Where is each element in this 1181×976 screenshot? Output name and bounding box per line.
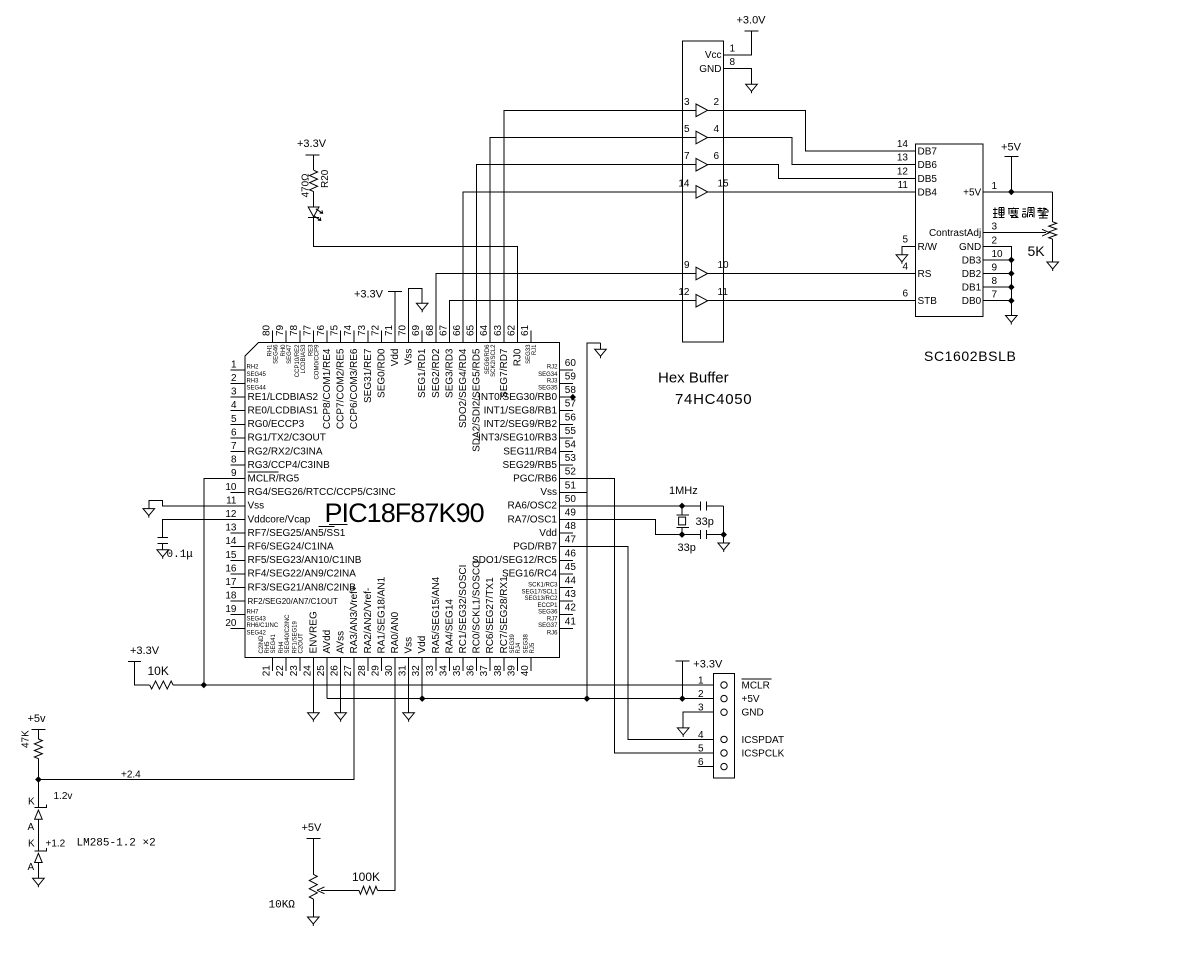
- U1 pin 72 SEG0/RD0: [370, 324, 387, 398]
- svg-text:10: 10: [225, 482, 237, 493]
- svg-text:RS: RS: [918, 269, 932, 280]
- wire U1 pin26 AVss to ground: [340, 671, 342, 713]
- svg-text:Vddcore/Vcap: Vddcore/Vcap: [248, 514, 311, 525]
- U2 Vcc pin 1: [705, 44, 736, 62]
- svg-text:10: 10: [992, 249, 1004, 260]
- svg-text:17: 17: [225, 577, 237, 588]
- U1 part name PIC18F87K90: [325, 498, 484, 528]
- wire U1 pin52 PGC to ICSPCLK: [573, 479, 713, 753]
- buffer U2 unit 1 (in 3 out 2): [682, 97, 723, 117]
- junction +2.4 node: [35, 776, 42, 783]
- svg-text:7: 7: [684, 151, 690, 162]
- svg-text:RA2/AN2/Vref-: RA2/AN2/Vref-: [363, 588, 374, 654]
- J1 pin1 line: [698, 684, 714, 686]
- crystal X1 1MHz: [669, 485, 698, 535]
- U1 pin 9 MCLR/RG5: [231, 468, 300, 484]
- svg-text:SDO1/SEG12/RC5: SDO1/SEG12/RC5: [472, 555, 557, 566]
- svg-text:INT0/SEG30/RB0: INT0/SEG30/RB0: [478, 392, 557, 403]
- U1 pin 38 RC7/SEG28/RX1: [493, 576, 510, 676]
- U1 pin 24 ENVREG: [302, 611, 319, 676]
- svg-text:+3.3V: +3.3V: [130, 645, 160, 657]
- svg-text:PIC18F87K90: PIC18F87K90: [325, 498, 484, 528]
- label LM285-1.2 ×2: [77, 838, 156, 850]
- J1 pin 6: [698, 757, 727, 770]
- svg-text:1: 1: [730, 44, 736, 55]
- svg-text:3: 3: [992, 222, 998, 233]
- svg-text:2: 2: [231, 373, 237, 384]
- junction DB2: [1008, 270, 1015, 277]
- capacitor C3 33p (bottom): [678, 530, 724, 554]
- label +2.4: [121, 770, 141, 781]
- svg-text:36: 36: [466, 665, 477, 677]
- svg-text:31: 31: [398, 665, 409, 677]
- capacitor C1 0.1μ: [158, 538, 194, 562]
- LCD pin 3 ContrastAdj: [929, 222, 998, 240]
- label SC1602BSLB: [924, 348, 1016, 364]
- U1 pin 42 SEG36/RJ7: [538, 603, 576, 623]
- svg-text:5: 5: [698, 744, 704, 755]
- svg-text:8: 8: [231, 455, 237, 466]
- svg-text:RA1/SEG18/AN1: RA1/SEG18/AN1: [376, 576, 387, 653]
- svg-text:C2OUT: C2OUT: [299, 633, 305, 654]
- svg-text:+3.3V: +3.3V: [354, 288, 384, 300]
- wire LCD +5V pin1: [983, 191, 1052, 193]
- svg-text:Vss: Vss: [540, 487, 557, 498]
- svg-text:69: 69: [411, 324, 422, 336]
- svg-text:+3.3V: +3.3V: [297, 138, 327, 150]
- buffer U2 unit 6 (in 12 out 11): [678, 287, 728, 307]
- svg-text:15: 15: [225, 550, 237, 561]
- LCD pin 4 RS: [902, 262, 931, 281]
- U1 pin 2 RH3/SEG44: [231, 373, 267, 392]
- svg-text:9: 9: [992, 263, 998, 274]
- svg-text:56: 56: [565, 412, 577, 423]
- wire +5V bar to node: [1010, 157, 1012, 192]
- U1 pin 65 SDA2/SDI2/SEG5/RD5: [466, 324, 483, 451]
- svg-text:RE1/LCDBIAS2: RE1/LCDBIAS2: [248, 392, 319, 403]
- power +5V (LCD): [1001, 142, 1022, 157]
- LCD pin 13 DB6: [897, 153, 938, 172]
- svg-text:DB7: DB7: [918, 147, 938, 158]
- buffer U2 unit 2 (in 5 out 4): [682, 124, 723, 144]
- svg-text:12: 12: [678, 287, 690, 298]
- wire U1 pin47 PGD to ICSPDAT: [573, 547, 713, 740]
- LCD pin 9 DB2: [962, 263, 998, 281]
- svg-text:SEG3/RD3: SEG3/RD3: [444, 348, 455, 398]
- resistor R2 47K: [21, 730, 43, 759]
- svg-text:INT2/SEG9/RB2: INT2/SEG9/RB2: [484, 419, 558, 430]
- wire +2.4 to U1 pin27 Vref+: [38, 671, 354, 780]
- U1 pin 56 INT2/SEG9/RB2: [484, 412, 577, 430]
- U1 pin 66 SDO2/SEG4/RD4: [452, 324, 469, 428]
- svg-text:68: 68: [425, 324, 436, 336]
- wire U2 Vcc to +3.0V: [724, 31, 752, 55]
- svg-text:73: 73: [357, 324, 368, 336]
- svg-text:RJ0: RJ0: [512, 348, 523, 366]
- svg-text:+5V: +5V: [963, 187, 981, 198]
- U1 pin 60 RJ2/SEG34: [538, 358, 576, 378]
- wire U2 out4 to LCD DB6: [724, 138, 916, 165]
- svg-text:A: A: [28, 862, 35, 873]
- wire U1 pin12 Vcap to C1: [163, 520, 245, 538]
- svg-text:RF5/SEG23/AN10/C1INB: RF5/SEG23/AN10/C1INB: [248, 555, 362, 566]
- svg-text:21: 21: [262, 665, 273, 677]
- U1 pin 25 AVdd: [316, 630, 333, 677]
- svg-text:ContrastAdj: ContrastAdj: [929, 228, 981, 239]
- svg-text:72: 72: [370, 324, 381, 336]
- U1 pin 11 Vss: [226, 495, 264, 511]
- U1 pin 69 SEG1/RD1: [411, 324, 428, 398]
- connector J1 ICSP body: [713, 674, 734, 779]
- U1 pin 70 Vss: [398, 324, 415, 365]
- svg-text:RC6/SEG27/TX1: RC6/SEG27/TX1: [485, 577, 496, 654]
- svg-text:5K: 5K: [1028, 243, 1046, 259]
- svg-text:Hex Buffer: Hex Buffer: [658, 370, 729, 387]
- J1 pin 1: [698, 676, 727, 689]
- svg-text:INT3/SEG10/RB3: INT3/SEG10/RB3: [478, 433, 557, 444]
- wire +3.3V to R20: [313, 155, 315, 170]
- ground (U1 pin11 Vss): [143, 509, 155, 518]
- wire U1 pin25 AVdd to +3.3V bus: [326, 671, 328, 699]
- svg-text:27: 27: [343, 665, 354, 677]
- J1 pin 5: [698, 744, 727, 757]
- power +3.0V: [736, 15, 766, 32]
- svg-text:64: 64: [479, 324, 490, 336]
- svg-text:SEG40/C2INC: SEG40/C2INC: [285, 614, 291, 654]
- U1 pin 48 Vdd: [539, 521, 576, 539]
- svg-text:Vss: Vss: [404, 637, 415, 654]
- wire U2 out2 to LCD DB7: [724, 110, 916, 151]
- svg-text:RJ1: RJ1: [532, 344, 538, 355]
- label ICSPCLK (J1): [742, 749, 785, 760]
- svg-text:10: 10: [718, 260, 730, 271]
- J1 pin2 line: [698, 698, 714, 700]
- svg-text:1: 1: [992, 181, 998, 192]
- U1 pin 1 RH2/SEG45: [231, 359, 267, 378]
- svg-text:+1.2: +1.2: [46, 839, 66, 850]
- svg-text:2: 2: [714, 97, 720, 108]
- J1 pin 3: [698, 703, 727, 716]
- svg-text:5: 5: [684, 124, 690, 135]
- svg-text:25: 25: [316, 665, 327, 677]
- svg-text:51: 51: [565, 480, 577, 491]
- svg-text:SEG34: SEG34: [538, 372, 558, 378]
- U1 pin 64 SEG6/RD6/SCK2/SCL2: [479, 324, 497, 376]
- svg-text:+3.0V: +3.0V: [736, 15, 766, 27]
- svg-text:RA4/SEG14: RA4/SEG14: [444, 599, 455, 654]
- U1 pin 17 RF3/SEG21/AN8/C2INB: [225, 577, 356, 593]
- svg-text:+5V: +5V: [742, 694, 760, 705]
- wire pot to ground: [312, 899, 314, 917]
- U1 pin 31 Vss: [398, 637, 415, 676]
- svg-text:STB: STB: [918, 296, 938, 307]
- LED D3: [308, 207, 322, 220]
- svg-text:53: 53: [565, 453, 577, 464]
- LCD pin 5 R/W: [902, 234, 937, 253]
- svg-text:46: 46: [565, 548, 577, 559]
- U1 pin 51 Vss: [540, 480, 576, 498]
- svg-text:COM0/CCP9: COM0/CCP9: [314, 344, 320, 380]
- power +3.3V (ICSP): [675, 658, 723, 670]
- potentiometer VR2 10KΩ: [269, 874, 318, 911]
- svg-text:RH4: RH4: [279, 641, 285, 654]
- U1 pin 23 RF1/SEG19/C2OUT: [289, 620, 305, 676]
- ground (top right): [595, 343, 607, 358]
- svg-text:5: 5: [902, 234, 908, 245]
- U1 pin 16 RF4/SEG22/AN9/C2INA: [225, 563, 356, 579]
- wire U1 pin68 SEG2/RD2 to U2 in9: [436, 274, 683, 343]
- svg-text:SEG16/RC4: SEG16/RC4: [502, 569, 557, 580]
- svg-text:RF3/SEG21/AN8/C2INB: RF3/SEG21/AN8/C2INB: [248, 582, 357, 593]
- U1 pin 32 Vdd: [411, 636, 428, 677]
- U1 pin 8 RG3/CCP4/C3INB: [231, 455, 331, 471]
- svg-text:+5V: +5V: [1001, 142, 1022, 154]
- svg-text:8: 8: [730, 57, 736, 68]
- J1 pin 2: [698, 689, 727, 702]
- svg-text:77: 77: [302, 324, 313, 336]
- svg-text:14: 14: [678, 178, 690, 189]
- ground (U1 pin70 Vss): [416, 303, 428, 312]
- svg-text:4: 4: [714, 124, 720, 135]
- svg-text:SEG1/RD1: SEG1/RD1: [417, 348, 428, 398]
- svg-text:RF4/SEG22/AN9/C2INA: RF4/SEG22/AN9/C2INA: [248, 569, 357, 580]
- U1 pin 57 INT1/SEG8/RB1: [484, 399, 577, 417]
- U1 pin 26 AVss: [330, 631, 347, 676]
- svg-text:0.1μ: 0.1μ: [167, 549, 194, 561]
- svg-text:CCP6/COM3/RE6: CCP6/COM3/RE6: [349, 348, 360, 429]
- svg-text:22: 22: [275, 665, 286, 677]
- svg-text:DB6: DB6: [918, 160, 938, 171]
- label GND (J1): [742, 708, 764, 719]
- svg-text:RA7/OSC1: RA7/OSC1: [508, 514, 558, 525]
- LCD pin 12 DB5: [897, 166, 938, 185]
- svg-text:50: 50: [565, 494, 577, 505]
- svg-text:+2.4: +2.4: [121, 770, 141, 781]
- svg-text:44: 44: [565, 576, 577, 587]
- wire R20 to LED: [313, 192, 315, 207]
- U1 pin 46 SDO1/SEG12/RC5: [472, 548, 576, 566]
- svg-text:SDA2/SDI2/SEG5/RD5: SDA2/SDI2/SEG5/RD5: [472, 348, 483, 452]
- U1 pin 37 RC6/SEG27/TX1: [479, 577, 496, 676]
- U1 pin 5 RG0/ECCP3: [231, 414, 305, 430]
- svg-text:28: 28: [357, 665, 368, 677]
- wire pot bottom to ground: [1052, 239, 1054, 262]
- svg-text:11: 11: [718, 287, 729, 298]
- svg-text:5: 5: [231, 414, 237, 425]
- svg-text:58: 58: [565, 385, 577, 396]
- wire LCD DB2: [983, 273, 1011, 275]
- J1 pin3 line to ground: [683, 712, 713, 728]
- U1 pin 14 RF6/SEG24/C1INA: [225, 536, 334, 552]
- U1 pin 29 RA1/SEG18/AN1: [370, 576, 387, 676]
- junction Vss net / +3.3V bus: [584, 695, 591, 702]
- ground (5K pot): [1047, 262, 1059, 271]
- svg-text:12: 12: [897, 166, 909, 177]
- ground (oscillator): [718, 543, 730, 552]
- svg-text:30: 30: [384, 665, 395, 677]
- svg-text:42: 42: [565, 603, 577, 614]
- svg-text:4: 4: [902, 262, 908, 273]
- wire U2 out15 to LCD DB4: [724, 191, 916, 193]
- svg-text:75: 75: [330, 324, 341, 336]
- wire U1 pin63 SEG7/RD7 to U2 in3: [504, 110, 683, 342]
- ground (U2 GND): [746, 84, 758, 93]
- U1 pin 67 SEG3/RD3: [438, 324, 455, 398]
- wire LCD DB3: [983, 259, 1011, 261]
- capacitor C2 33p (top): [696, 501, 724, 528]
- svg-text:11: 11: [898, 180, 909, 191]
- svg-text:4: 4: [698, 730, 704, 741]
- LCD pin 10 DB3: [962, 249, 1003, 267]
- ground (C1): [157, 550, 169, 559]
- LCD pin 1 +5V: [963, 181, 997, 199]
- svg-text:57: 57: [565, 399, 577, 410]
- junction caps rail: [720, 531, 727, 538]
- LCD pin 2 GND: [959, 235, 998, 253]
- wire Vss net vertical: [587, 343, 601, 699]
- svg-text:40: 40: [520, 665, 531, 677]
- U1 pin 20 RH6/C1INC/SEG42: [225, 618, 278, 637]
- svg-text:SEG38: SEG38: [524, 633, 530, 653]
- svg-text:1: 1: [231, 359, 237, 370]
- power +3.3V (R20): [297, 138, 327, 155]
- svg-text:6: 6: [714, 151, 720, 162]
- wire +3.3V to bus2: [681, 661, 683, 699]
- svg-text:R20: R20: [320, 169, 331, 188]
- power +5v (47K): [28, 713, 47, 730]
- svg-text:RH2: RH2: [247, 365, 260, 371]
- U1 pin 52 PGC/RB6: [513, 467, 576, 485]
- svg-text:26: 26: [330, 665, 341, 677]
- svg-text:+3.3V: +3.3V: [693, 658, 723, 670]
- svg-text:6: 6: [231, 427, 237, 438]
- wire +5V to potentiometer top: [1052, 192, 1054, 222]
- U1 pin 39 SEG39/RJ4: [506, 633, 522, 676]
- wire +3.3V bus (bus2): [327, 698, 713, 700]
- svg-text:SC1602BSLB: SC1602BSLB: [924, 348, 1016, 364]
- U1 pin 71 Vdd: [384, 324, 401, 366]
- svg-text:AVss: AVss: [336, 631, 347, 654]
- U1 pin 74 CCP6/COM3/RE6: [343, 324, 360, 429]
- LCD pin 11 DB4: [898, 180, 938, 199]
- wire caps right rail: [723, 506, 725, 543]
- svg-text:R/W: R/W: [918, 242, 938, 253]
- svg-text:33p: 33p: [678, 542, 696, 554]
- wire U2 out10 to LCD RS: [724, 273, 916, 275]
- power +3.3V (U1 Vdd pin71): [354, 288, 402, 300]
- junction OSC2: [679, 503, 686, 510]
- svg-text:GND: GND: [699, 64, 721, 75]
- svg-text:RE0/LCDBIAS1: RE0/LCDBIAS1: [248, 406, 319, 417]
- U1 pin 3 RE1/LCDBIAS2: [231, 387, 319, 403]
- svg-text:ECCP1: ECCP1: [537, 603, 558, 609]
- wire LED to U1 pin62 RJ0: [314, 218, 518, 343]
- svg-text:PGD/RB7: PGD/RB7: [513, 542, 557, 553]
- U1 pin 33 RA5/SEG15/AN4: [425, 576, 442, 676]
- svg-text:SEG42: SEG42: [247, 630, 267, 636]
- ground (reference chain): [33, 878, 45, 887]
- U1 pin 62 RJ0: [506, 324, 523, 366]
- svg-text:ENVREG: ENVREG: [308, 611, 319, 653]
- U1 pin 53 SEG29/RB5: [503, 453, 577, 471]
- svg-text:33: 33: [425, 665, 436, 677]
- resistor R20 470Ω: [301, 169, 332, 197]
- svg-text:RJ7: RJ7: [547, 617, 558, 623]
- svg-text:CCP7/COM2/RE5: CCP7/COM2/RE5: [336, 348, 347, 429]
- wire U1 pin66 SEG4/RD4 to U2 in14: [463, 192, 682, 343]
- U1 pin 45 SEG16/RC4: [502, 562, 576, 580]
- U1 pin 15 RF5/SEG23/AN10/C1INB: [225, 550, 361, 566]
- svg-text:RJ4: RJ4: [516, 642, 522, 653]
- svg-text:8: 8: [992, 276, 998, 287]
- U1 pin 10 RG4/SEG26/RTCC/CCP5/C3INC: [225, 482, 395, 498]
- svg-text:7: 7: [992, 290, 998, 301]
- wire U1 pin50 OSC2 to crystal: [573, 505, 701, 507]
- junction +5V: [1008, 189, 1015, 196]
- svg-text:14: 14: [225, 536, 237, 547]
- svg-text:RG3/CCP4/C3INB: RG3/CCP4/C3INB: [248, 460, 331, 471]
- U1 pin 54 SEG11/RB4: [503, 440, 576, 458]
- U1 pin 40 SEG38/RJ5: [520, 633, 536, 676]
- svg-text:70: 70: [398, 324, 409, 336]
- svg-text:SEG7/RD7: SEG7/RD7: [499, 348, 510, 398]
- svg-text:74HC4050: 74HC4050: [675, 391, 752, 408]
- svg-text:16: 16: [225, 563, 237, 574]
- svg-text:100K: 100K: [352, 870, 380, 884]
- svg-text:76: 76: [316, 324, 327, 336]
- LCD pin 8 DB1: [962, 276, 998, 294]
- J1 pin 4: [698, 730, 727, 743]
- svg-text:13: 13: [225, 523, 237, 534]
- U1 pin 59 RJ3/SEG35: [538, 372, 576, 392]
- svg-text:GND: GND: [959, 242, 981, 253]
- svg-text:RA3/AN3/Vref+: RA3/AN3/Vref+: [349, 585, 360, 653]
- U1 pin 47 PGD/RB7: [513, 535, 576, 553]
- svg-text:9: 9: [231, 468, 237, 479]
- svg-text:Vdd: Vdd: [417, 636, 428, 654]
- ground (U1 pin26): [335, 713, 347, 722]
- svg-text:1MHz: 1MHz: [669, 485, 698, 497]
- buffer U2 unit 4 (in 14 out 15): [678, 178, 729, 198]
- svg-text:11: 11: [226, 495, 237, 506]
- resistor R1 10K: [148, 664, 174, 689]
- svg-text:47K: 47K: [21, 730, 32, 748]
- svg-text:SDO2/SEG4/RD4: SDO2/SEG4/RD4: [458, 348, 469, 428]
- svg-text:SEG11/RB4: SEG11/RB4: [503, 446, 557, 457]
- svg-text:DB3: DB3: [962, 255, 982, 266]
- label K (D1 cathode): [28, 797, 35, 808]
- zener D1 LM285-1.2: [34, 780, 46, 835]
- U1 pin 27 RA3/AN3/Vref+: [343, 585, 360, 676]
- svg-text:RF2/SEG20/AN7/C1OUT: RF2/SEG20/AN7/C1OUT: [248, 597, 338, 606]
- ground (LCD DB0-DB3): [1006, 316, 1018, 325]
- svg-text:RH6/C1INC: RH6/C1INC: [247, 623, 279, 629]
- wire +5V to pot: [312, 839, 314, 875]
- svg-text:DB4: DB4: [918, 187, 938, 198]
- junction DB0: [1008, 297, 1015, 304]
- svg-text:SEG37: SEG37: [538, 623, 558, 629]
- svg-text:10KΩ: 10KΩ: [269, 900, 296, 912]
- wire U1 pin49 OSC1 to crystal: [573, 520, 701, 535]
- junction MCLR node: [201, 682, 208, 689]
- IC U2 74HC4050 hex buffer body: [682, 41, 723, 342]
- svg-text:48: 48: [565, 521, 577, 532]
- svg-text:K: K: [28, 797, 35, 808]
- svg-text:10K: 10K: [148, 664, 169, 678]
- svg-text:RG2/RX2/C3INA: RG2/RX2/C3INA: [248, 446, 323, 457]
- svg-text:24: 24: [302, 665, 313, 677]
- svg-text:SEG36: SEG36: [538, 610, 558, 616]
